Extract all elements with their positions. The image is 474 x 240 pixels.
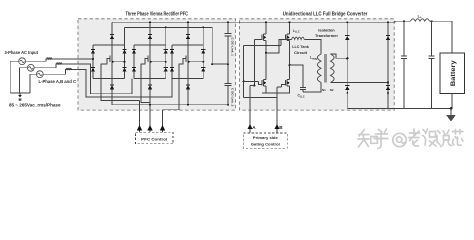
mosfet QB (LLC bridge, high-right): [281, 22, 290, 45]
diode D3e: [186, 85, 190, 89]
wire: node B vertical (right bridge midpoint): [289, 42, 291, 76]
capacitor C_DC-Link_1: [227, 22, 229, 33]
leg 1: bridge rails: [93, 27, 125, 78]
mosfet Q1 (PFC leg 1): [111, 55, 113, 63]
wire: rectifier output to Lo: [388, 21, 411, 22]
diode DR1: [345, 36, 349, 40]
diode D2e: [148, 85, 152, 89]
svg-text:PFC Control: PFC Control: [141, 136, 167, 141]
rectifier column left: [346, 22, 348, 108]
PFC stage dashed enclosure: [78, 19, 236, 110]
wire: PFC gate drive 3: [162, 110, 164, 132]
inductor L_LLC: [292, 37, 305, 39]
wire: gate rail left: [243, 45, 245, 97]
arrowhead A: [247, 124, 252, 129]
AC source VC: [36, 71, 43, 78]
node dots at FET source junctions: [124, 61, 126, 63]
leg 1: top column wire: [111, 22, 113, 45]
svg-text:85 ~ 265Vac_rms/Phase: 85 ~ 265Vac_rms/Phase: [9, 103, 61, 108]
svg-text:LLC Tank: LLC Tank: [292, 44, 309, 49]
wire: gate lead leg 2: [141, 58, 150, 102]
leg 3: top column wire: [187, 22, 189, 45]
wire: secondary bottom to left rectifier column: [331, 82, 389, 84]
AC source VB: [27, 64, 34, 71]
leg 2: top column wire: [149, 22, 151, 45]
diode D2b: [132, 67, 136, 71]
diode D1c: [122, 49, 126, 53]
wire: node A vertical (left bridge midpoint): [265, 42, 267, 76]
inductor LB: [56, 63, 62, 64]
diode D2a: [132, 49, 136, 53]
svg-text:C DC-Link_1: C DC-Link_1: [230, 38, 234, 57]
wire: phase B staircase to leg 2: [78, 64, 132, 94]
svg-text:Isolation: Isolation: [318, 27, 335, 32]
wire: gate net line (upper): [244, 44, 281, 46]
svg-text:Lo: Lo: [418, 14, 422, 19]
leg 1: bottom column wire: [111, 45, 113, 105]
watermark glyph lang: [423, 129, 437, 146]
mosfet QA (LLC bridge, high-left): [255, 22, 267, 42]
wire: gate link to QC: [244, 80, 259, 82]
wire: battery bottom: [451, 94, 453, 109]
capacitor C_LLC: [300, 87, 306, 89]
svg-text:C DC-Link_2: C DC-Link_2: [230, 88, 234, 107]
capacitor Co1: [403, 21, 405, 56]
wire: PFC gate drive 1: [139, 100, 141, 132]
wire: neutral bus: [10, 92, 30, 94]
wire: neutral return C: [30, 74, 36, 93]
ground (AC neutral): [19, 93, 21, 95]
mosfet QD (LLC bridge, low-right): [282, 76, 290, 93]
diode D1d: [122, 67, 126, 71]
svg-text:B: B: [279, 125, 283, 130]
wire: gate lead leg 1: [101, 58, 140, 100]
svg-text:3-Phase AC Input: 3-Phase AC Input: [5, 50, 39, 55]
PFC Control box: [136, 132, 174, 144]
svg-text:Unidirectional LLC Full Bridge: Unidirectional LLC Full Bridge Converter: [283, 11, 368, 17]
wire: gating exit A: [250, 86, 255, 133]
transformer T1 secondary winding: [331, 54, 335, 83]
inductor LA: [46, 58, 52, 59]
diode D1e: [110, 85, 114, 89]
svg-text:N1: N1: [322, 88, 326, 92]
wire: Lo to battery top: [430, 21, 453, 53]
transformer T1 primary winding: [317, 54, 321, 83]
rectifier column right: [387, 22, 389, 108]
wire: phase A from source to box: [26, 59, 78, 61]
LLC stage dashed enclosure: [240, 19, 395, 110]
mosfet Q3 (PFC leg 3): [187, 55, 189, 63]
diode D3d: [201, 67, 205, 71]
ground (output): [450, 109, 452, 116]
wire: PFC gate drive 2: [149, 105, 151, 132]
wire: gate lead leg 3: [163, 58, 187, 109]
wire: phase B from source to box: [34, 64, 78, 68]
watermark glyph hu: [374, 129, 388, 148]
AC source VA: [19, 58, 26, 65]
wire: neutral inner bus: [125, 27, 229, 64]
wire: DC+ top bus: [112, 21, 388, 23]
arrowhead 1: [137, 125, 142, 130]
Primary side Gating Control box: [243, 133, 287, 148]
arrowhead 3: [160, 125, 165, 130]
node dots on DC+ bus: [149, 21, 151, 23]
svg-text:N2: N2: [330, 88, 334, 92]
svg-text:Circuit: Circuit: [294, 50, 308, 55]
watermark glyph lao: [409, 129, 420, 146]
svg-text:Battery: Battery: [450, 60, 457, 87]
wire: secondary top to right rectifier column: [331, 54, 348, 58]
node dots on DC- bus: [149, 104, 151, 106]
inductor Lo: [411, 19, 430, 21]
svg-text:Gating Control: Gating Control: [251, 141, 280, 146]
wire: phase A into leg 1: [78, 58, 93, 60]
leg 3: bridge rails: [172, 27, 203, 78]
transformer T1 core: [325, 54, 327, 83]
diode D1t: [110, 35, 114, 39]
wire: output return bus: [347, 108, 452, 110]
wire: gate net line (lower): [244, 97, 277, 99]
diode D2c: [164, 49, 168, 53]
mosfet QC (LLC bridge, low-left): [259, 76, 267, 93]
wire: DC- bottom bus (PFC stage): [112, 104, 228, 106]
svg-text:Transformer: Transformer: [315, 33, 338, 38]
wire: QA gate drop: [254, 39, 256, 85]
arrowhead 2: [147, 125, 152, 130]
wire: phase C staircase to leg 3: [78, 70, 172, 98]
mosfet Q2 (PFC leg 2): [149, 55, 151, 63]
diode DR3: [386, 36, 390, 40]
leg 2: bridge rails: [134, 27, 166, 78]
wire: tank branch from node A: [266, 40, 292, 53]
inductor LC: [66, 68, 72, 69]
wire: L_LLC to transformer: [304, 40, 321, 55]
node dots on DC+ bus at bridge legs: [265, 21, 267, 23]
svg-text:A: A: [252, 125, 256, 130]
watermark glyph shuo: [437, 130, 452, 147]
diode DR2: [345, 86, 349, 90]
wire: neutral return B: [19, 68, 27, 93]
watermark glyph xin: [453, 130, 464, 146]
wire: low-side source bus: [262, 92, 290, 94]
watermark glyph at-sign: [393, 133, 406, 146]
watermark glyph zhi: [358, 130, 369, 148]
svg-text:Three Phase Vienna Rectifier P: Three Phase Vienna Rectifier PFC: [125, 11, 188, 17]
wire: branch from node B to C_LLC: [290, 65, 304, 87]
diode D2t: [148, 35, 152, 39]
diode DR4: [386, 86, 390, 90]
diode D3c: [201, 49, 205, 53]
capacitor Co2: [431, 21, 433, 56]
battery: [440, 53, 465, 94]
arrowhead B: [274, 124, 279, 129]
wire: neutral return A: [10, 61, 18, 93]
wire: phase C from source to box: [43, 70, 78, 75]
diode D1b: [91, 67, 95, 71]
diode D3b: [170, 67, 174, 71]
diode D3t: [186, 35, 190, 39]
leg 3: bottom column wire: [187, 45, 189, 105]
diode D3a: [170, 49, 174, 53]
svg-text:Primary side: Primary side: [253, 135, 279, 140]
diode D1a: [91, 49, 95, 53]
wire: C_LLC to primary bottom: [303, 83, 321, 93]
leg 2: bottom column wire: [149, 45, 151, 105]
wire: gating exit B: [277, 87, 282, 133]
capacitor C_DC-Link_2: [227, 64, 229, 83]
diode D2d: [164, 67, 168, 71]
svg-text:L-Phase A,B and C: L-Phase A,B and C: [39, 79, 77, 84]
